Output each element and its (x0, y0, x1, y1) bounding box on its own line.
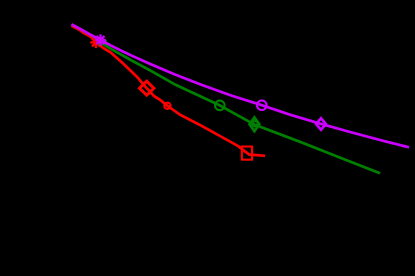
green circle marker 2 (small) (252, 121, 257, 126)
green diamond marker (250, 117, 260, 131)
magenta curve (72, 24, 410, 147)
red curve (72, 26, 266, 156)
red star marker (90, 37, 101, 48)
green star marker (97, 37, 107, 46)
magenta diamond marker (316, 118, 326, 130)
red diamond marker (140, 81, 154, 95)
magenta star marker (95, 34, 105, 45)
red square marker (242, 147, 252, 160)
red circle marker (164, 103, 170, 109)
magenta circle marker (257, 100, 267, 110)
green curve (72, 24, 381, 173)
green circle marker 1 (215, 101, 225, 111)
